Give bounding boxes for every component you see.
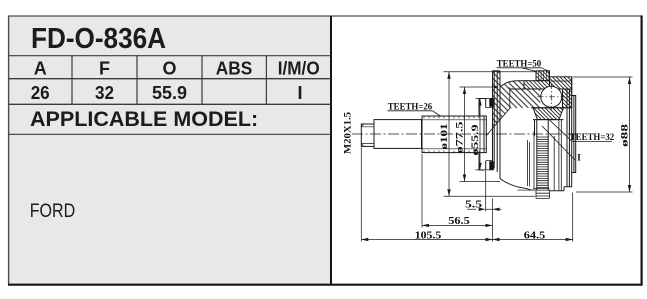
left info panel background — [9, 16, 332, 285]
spline right end line — [483, 116, 485, 153]
56.5 arrows — [422, 224, 429, 227]
ball wedge right (hatched) — [563, 89, 572, 108]
dim line 64.5 — [493, 239, 573, 241]
inner race bore edge lines — [535, 120, 549, 137]
ABS ring teeth block — [536, 71, 550, 81]
dia101 arrows — [447, 72, 450, 79]
boot collar dia 55.9 — [479, 99, 486, 171]
svg-text:I/M/O: I/M/O — [278, 59, 320, 79]
column line 4 — [265, 56, 267, 105]
ext line joint rear — [572, 193, 574, 242]
outer frame bottom — [8, 284, 643, 286]
cavity vertical lines (mouth interior, lower half) — [527, 120, 561, 191]
svg-text:105.5: 105.5 — [415, 229, 442, 241]
dia101 ext bottom — [444, 195, 536, 197]
ext line collar end — [485, 171, 487, 212]
leader TEETH=26 — [388, 111, 442, 117]
svg-text:ø55.9: ø55.9 — [471, 124, 481, 155]
dia55.9 ext bottom — [476, 169, 495, 171]
dim line 56.5 — [422, 224, 493, 226]
svg-text:FD-O-836A: FD-O-836A — [31, 23, 166, 55]
table row line under headers — [9, 78, 332, 80]
dia88 ext bottom — [576, 191, 633, 193]
svg-text:32: 32 — [95, 83, 114, 103]
dia77.5 arrows — [463, 87, 466, 94]
bell back wall section hatch (top half) — [493, 71, 541, 129]
dim line 5.5 — [467, 208, 502, 210]
svg-text:64.5: 64.5 — [524, 229, 546, 241]
leader TEETH=50 — [497, 68, 550, 72]
leader TEETH=32 — [548, 119, 612, 142]
centerline — [352, 133, 578, 135]
dia77.5 dimension line — [464, 87, 466, 182]
svg-text:I: I — [577, 154, 581, 164]
105.5 arrows — [361, 238, 368, 241]
cage line below ball — [531, 107, 572, 109]
spline bore ribs TEETH=32 — [537, 137, 548, 188]
threaded stub M20X1.5 — [361, 124, 374, 146]
bottom rear silhouette — [550, 187, 572, 191]
dia55.9 dimension line — [479, 99, 481, 170]
dia88 arrows — [628, 77, 631, 84]
ABS ring band B (hatched) — [550, 77, 572, 89]
bell inner cone line — [486, 87, 510, 136]
ring bottom silhouette left — [517, 189, 531, 191]
arrowheads — [361, 72, 631, 241]
outer frame right — [640, 16, 642, 286]
svg-text:A: A — [34, 59, 47, 79]
bell back face top cap — [493, 70, 501, 72]
spline shaft TEETH=26 — [422, 116, 486, 153]
dia55.9 arrows — [478, 99, 481, 106]
inner race bore top line — [533, 119, 564, 121]
64.5 arrows — [493, 238, 500, 241]
svg-text:APPLICABLE MODEL:: APPLICABLE MODEL: — [30, 107, 258, 131]
svg-text:TEETH=50: TEETH=50 — [497, 59, 542, 69]
outer frame left — [8, 16, 10, 286]
dia88 dimension line — [629, 77, 631, 192]
dia88 ext top — [573, 76, 633, 78]
ball crosshair — [538, 83, 566, 111]
svg-text:5.5: 5.5 — [465, 199, 483, 211]
joint mouth right face — [567, 77, 572, 187]
table row line under values — [9, 103, 332, 105]
table row line under title — [9, 55, 332, 57]
panel divider — [330, 16, 332, 285]
ball — [541, 86, 562, 107]
dia55.9 ext top — [476, 98, 490, 100]
column line 2 — [136, 56, 138, 105]
boot clamp bottom (filled) — [489, 161, 494, 170]
bell dome outer profile top — [500, 81, 524, 87]
bottom rear teeth block — [533, 189, 550, 199]
boot groove floor — [486, 108, 493, 161]
dia101 ext top — [444, 71, 538, 73]
svg-text:55.9: 55.9 — [152, 83, 187, 103]
boot clamp top (filled) — [489, 98, 494, 107]
svg-text:O: O — [162, 59, 176, 79]
svg-text:TEETH=26: TEETH=26 — [388, 102, 433, 112]
svg-text:26: 26 — [31, 83, 50, 103]
dim line 105.5 — [361, 239, 492, 241]
ext line stub end — [360, 148, 362, 242]
table row line under APPLICABLE MODEL — [9, 133, 332, 135]
column line 1 — [71, 56, 73, 105]
rib column edges — [537, 136, 548, 191]
dia101 dimension line — [448, 72, 450, 196]
outer frame top — [8, 15, 643, 17]
dia77.5 ext top — [460, 86, 499, 88]
ABS ring band A (hatched) — [524, 81, 550, 89]
svg-text:FORD: FORD — [30, 201, 75, 222]
svg-text:ø101: ø101 — [440, 123, 450, 149]
svg-text:F: F — [99, 59, 110, 79]
ext line joint face — [492, 199, 494, 242]
mouth inner lip — [572, 96, 576, 173]
bell back face ring dia101: vertical lines — [493, 71, 501, 179]
bottom silhouette: lip base curve and bell lower contour — [500, 179, 537, 191]
svg-text:I: I — [297, 83, 302, 103]
thread crest lines — [361, 124, 374, 146]
spline root lines — [422, 120, 486, 149]
ext line spline start — [421, 154, 423, 228]
dia77.5 ext bottom — [460, 181, 501, 183]
gear tooth ticks — [539, 71, 549, 80]
svg-text:TEETH=32: TEETH=32 — [570, 133, 615, 143]
svg-text:M20X1.5: M20X1.5 — [344, 112, 354, 154]
5.5 arrows — [479, 208, 486, 211]
spline tooth ticks — [424, 116, 484, 152]
column line 3 — [201, 56, 203, 105]
svg-text:56.5: 56.5 — [448, 215, 470, 227]
leader I — [542, 126, 575, 160]
inner race section (hatched trapezoid) — [533, 108, 564, 120]
svg-text:ABS: ABS — [216, 59, 253, 79]
main shaft — [374, 120, 422, 149]
cage line top — [510, 88, 572, 90]
svg-text:ø88: ø88 — [621, 124, 631, 147]
svg-text:ø77.5: ø77.5 — [456, 121, 466, 153]
